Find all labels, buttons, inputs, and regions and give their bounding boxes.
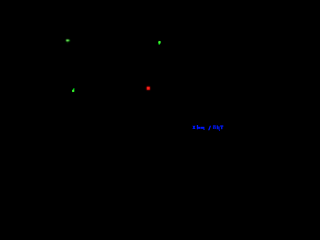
green LED blob top-left (66, 39, 70, 43)
green LED blob bottom-left (72, 88, 74, 92)
blue watermark text bottom-right (192, 125, 223, 131)
f-bar cluster (197, 125, 198, 129)
green LED blob top-right (158, 41, 161, 45)
P-ish (213, 125, 216, 126)
red LED blob halo (146, 86, 150, 90)
IJ (217, 125, 218, 129)
Y (220, 125, 223, 126)
X (192, 126, 195, 129)
red LED blob core (147, 87, 150, 90)
slash (208, 126, 211, 131)
